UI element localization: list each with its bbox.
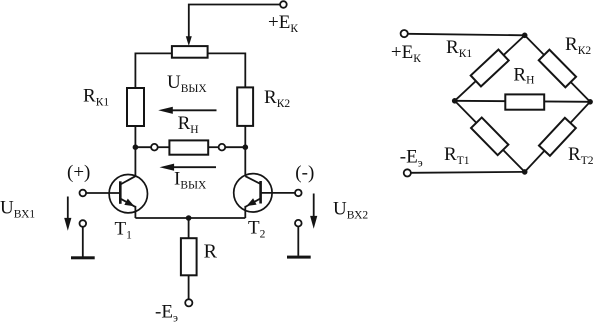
wire potentiometer left to RK1 top bbox=[135, 53, 172, 88]
terminal +Ek bbox=[280, 1, 287, 8]
ground (left input) bbox=[82, 227, 84, 257]
node right (junction dot) bbox=[243, 144, 249, 150]
wire input1 to T1 base bbox=[86, 192, 120, 194]
wire T2 emitter down to rail bbox=[244, 206, 246, 218]
wire right connector to right node bbox=[225, 146, 245, 148]
resistor RH (bridge) bbox=[505, 94, 544, 109]
resistor RH bbox=[169, 140, 208, 154]
wire emitter rail bbox=[135, 217, 245, 219]
wire bridge middle bbox=[455, 101, 590, 102]
resistor RK1 bbox=[127, 88, 144, 126]
resistor RT1 (bridge) bbox=[471, 117, 508, 155]
resistor R bbox=[181, 238, 197, 275]
wire bridge edge bottom-left bbox=[455, 101, 525, 172]
resistor RK1 (bridge) bbox=[471, 50, 509, 87]
node left (junction dot) bbox=[133, 144, 139, 150]
node bridge top bbox=[522, 33, 528, 39]
node bridge right bbox=[587, 99, 593, 105]
arrow UBX2 (down) bbox=[313, 194, 315, 218]
wire bridge edge top-left bbox=[455, 35, 525, 101]
arrowhead into potentiometer bbox=[186, 36, 192, 46]
wire T1 emitter down to rail bbox=[134, 206, 136, 218]
node bridge bottom bbox=[522, 169, 528, 175]
wire -Ee to bridge bottom node bbox=[411, 171, 525, 174]
potentiometer (adjustable resistor) bbox=[172, 46, 208, 58]
wire bridge edge bottom-right bbox=[525, 102, 590, 172]
terminal input1 lower bbox=[80, 220, 87, 227]
wire connector to RH bbox=[158, 146, 170, 148]
wire RH to right connector bbox=[208, 146, 218, 148]
terminal input2 upper bbox=[295, 190, 302, 197]
wire RK1 bottom to T1 collector bbox=[134, 126, 136, 176]
wire potentiometer right to RK2 top bbox=[208, 53, 246, 87]
wire T2 base to input2 bbox=[261, 192, 295, 194]
wire junction to resistor R bbox=[188, 218, 190, 238]
resistor RK2 (bridge) bbox=[539, 50, 576, 88]
node bridge left bbox=[452, 98, 458, 104]
arrow Ivyh (points left) bbox=[173, 166, 216, 168]
wire RK2 bottom to T2 collector bbox=[244, 126, 246, 176]
svg-text:R: R bbox=[204, 241, 218, 263]
wire bridge edge top-right bbox=[525, 35, 590, 102]
terminal -Ee (bridge) bbox=[404, 169, 411, 176]
wire resistor R to -Ee terminal bbox=[188, 275, 190, 299]
terminal input1 upper bbox=[80, 190, 87, 197]
terminal +Ek (bridge) bbox=[401, 30, 408, 37]
svg-text:(-): (-) bbox=[295, 163, 314, 184]
terminal -Ee bbox=[185, 299, 192, 306]
wire left node to RH connector bbox=[135, 146, 151, 148]
ground (right input) bbox=[297, 227, 299, 256]
wire top feed from +Ek terminal to potentiometer bbox=[189, 5, 280, 38]
resistor RK2 bbox=[237, 87, 253, 126]
wire +Ek to bridge top node bbox=[408, 34, 525, 36]
terminal input2 lower bbox=[295, 220, 302, 227]
transistor T2 bbox=[234, 174, 272, 212]
arrow Uvyh (points left) bbox=[172, 109, 217, 111]
resistor RT2 (bridge) bbox=[539, 118, 576, 156]
transistor T1 bbox=[109, 175, 147, 213]
connector circle right of RH bbox=[219, 144, 226, 151]
arrow UBX1 (down) bbox=[67, 197, 69, 220]
node emitter junction bbox=[186, 215, 192, 221]
svg-text:(+): (+) bbox=[67, 162, 90, 183]
connector circle left of RH bbox=[151, 144, 158, 151]
